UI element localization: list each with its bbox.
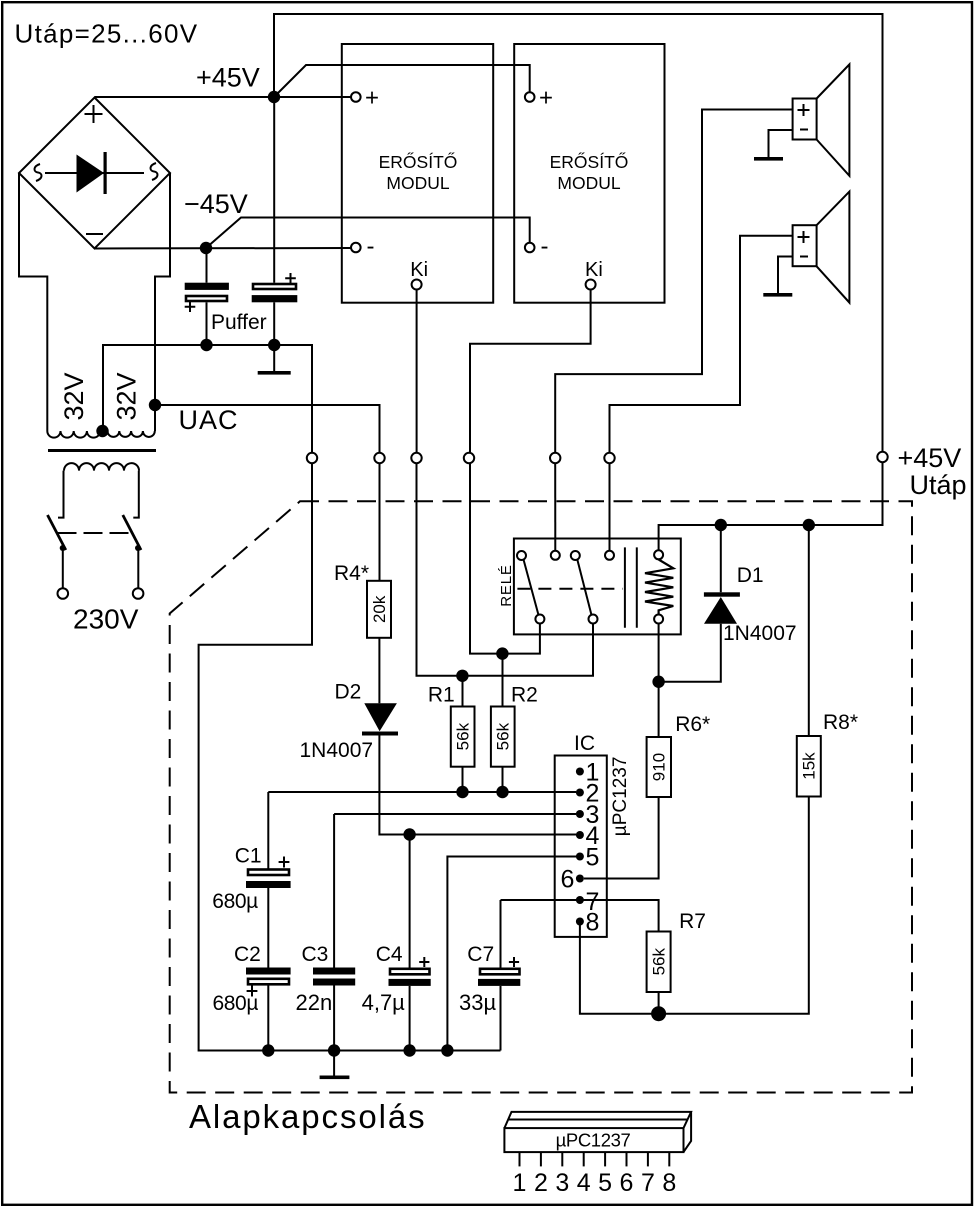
- terminal module2 plus: [525, 92, 535, 102]
- connector circle Ki1: [411, 453, 421, 463]
- svg-text:MODUL: MODUL: [386, 173, 449, 193]
- svg-text:R6*: R6*: [675, 713, 710, 736]
- diode D2 cathode bar: [362, 732, 398, 736]
- svg-text:R7: R7: [679, 910, 706, 933]
- capacitor C1 plus: [279, 857, 290, 868]
- switch pole left lever: [48, 515, 66, 550]
- svg-text:R1: R1: [428, 684, 455, 707]
- bridge right tilde: [150, 163, 157, 180]
- node +45V junction: [268, 91, 280, 103]
- wire puffer-gnd into box: [199, 463, 501, 1051]
- capacitor C4 lead top: [409, 835, 411, 968]
- relay contact top 1: [517, 551, 526, 560]
- node bottom rail junction: [651, 1006, 666, 1021]
- package top bevel line: [508, 1119, 688, 1121]
- svg-text:8: 8: [662, 1169, 676, 1197]
- diode D1 cathode bar: [704, 592, 740, 596]
- svg-text:C2: C2: [234, 943, 261, 966]
- capacitor puffer C-right lead bottom: [273, 302, 275, 345]
- node C2 ground: [262, 1044, 274, 1056]
- capacitor C3 bottom plate: [313, 979, 355, 986]
- speaker 2 box: [793, 225, 817, 266]
- wire R7 bottom: [658, 992, 660, 1014]
- capacitor C7 top plate hollow: [480, 969, 520, 975]
- node switch left pivot: [60, 545, 66, 551]
- resistor R4 box: [367, 581, 391, 638]
- bridge internal AC line: [45, 172, 144, 174]
- bridge rectifier B1 diamond: [19, 98, 170, 249]
- IC pin 7 dot: [576, 896, 584, 904]
- wire Ki2 into box to relay and R2: [470, 463, 540, 654]
- capacitor puffer C-left plus: [185, 302, 196, 313]
- svg-text:µPC1237: µPC1237: [610, 757, 631, 837]
- relay core bar right: [636, 547, 638, 627]
- capacitor C7 lead bottom: [500, 986, 502, 1051]
- node R2 bottom junction: [496, 786, 508, 798]
- svg-text:6: 6: [561, 866, 575, 894]
- relay coil zigzag: [645, 560, 673, 615]
- node C3 ground: [328, 1044, 340, 1056]
- svg-text:-: -: [541, 233, 549, 260]
- bridge plus sign: [85, 105, 103, 123]
- node R2 top junction: [496, 647, 508, 659]
- capacitor C1 lead top from pin2 line: [267, 792, 269, 869]
- capacitor puffer C-right lead top: [273, 97, 275, 283]
- resistor R2 box: [491, 707, 515, 767]
- svg-text:910: 910: [650, 753, 669, 781]
- package pin 8: [668, 1152, 670, 1166]
- connector circle speaker2: [604, 453, 614, 463]
- wire D2 to pin4 line: [379, 736, 576, 835]
- wire Ki1 riser: [416, 290, 418, 454]
- svg-text:Utáp: Utáp: [910, 470, 967, 500]
- wire pin7 line from C7 to R7: [501, 900, 659, 932]
- node R8 top junction: [803, 519, 815, 531]
- diode D2 triangle: [364, 703, 397, 731]
- svg-text:32V: 32V: [59, 372, 89, 420]
- svg-text:56k: 56k: [494, 722, 513, 750]
- speaker 2 cone: [817, 192, 850, 303]
- relay lever 1: [524, 560, 539, 616]
- IC pin 5 dot: [576, 853, 584, 861]
- wire bridge left corner to transformer secondary left: [19, 173, 47, 431]
- package pin 4: [583, 1152, 585, 1166]
- svg-text:R4*: R4*: [334, 562, 369, 585]
- ground stub below rail: [333, 1051, 335, 1077]
- wire UAC to connector: [155, 405, 380, 453]
- package top face: [504, 1112, 691, 1152]
- svg-text:+: +: [539, 85, 553, 112]
- wire R2 bottom: [502, 767, 504, 792]
- capacitor puffer C-right top plate: [253, 284, 296, 289]
- package pin 2: [540, 1152, 542, 1166]
- capacitor puffer C-left top plate: [185, 283, 229, 290]
- package pin 5: [604, 1152, 606, 1166]
- node puffer left junction: [200, 339, 212, 351]
- svg-text:20k: 20k: [370, 595, 389, 623]
- wire switch left to terminal: [62, 549, 64, 589]
- svg-text:15k: 15k: [800, 752, 819, 780]
- relay coil terminal top: [654, 550, 663, 559]
- svg-text:5: 5: [586, 844, 600, 872]
- svg-text:C1: C1: [235, 844, 262, 867]
- wire -45V rail from bridge bottom to module1 minus: [95, 247, 352, 250]
- svg-text:56k: 56k: [650, 948, 669, 976]
- capacitor C4 lead bottom: [409, 986, 411, 1051]
- package pin 1: [519, 1152, 521, 1166]
- wire +45V branch to module2 plus: [274, 65, 530, 97]
- node puffer right junction: [268, 339, 280, 351]
- speaker 2 minus: [800, 256, 808, 258]
- connector circle Ki2: [464, 453, 474, 463]
- capacitor puffer C-right bottom plate: [252, 295, 298, 302]
- package pin 6: [626, 1152, 628, 1166]
- capacitor puffer C-left lead bottom: [206, 302, 208, 345]
- package pin 3: [561, 1152, 563, 1166]
- capacitor puffer C-left lead top: [206, 248, 208, 283]
- terminal Ki module2: [586, 280, 596, 290]
- wire UAC connector to R4: [379, 463, 381, 581]
- resistor R6 box: [647, 737, 671, 797]
- connector circle puffer-gnd: [307, 453, 317, 463]
- capacitor C3 lead top: [333, 814, 335, 968]
- wire pin3 line from C3: [334, 813, 576, 815]
- IC pin 4 dot: [576, 831, 584, 839]
- capacitor C2 top plate solid: [246, 968, 291, 975]
- wire +45V rail from bridge top to module1 plus: [95, 96, 352, 98]
- IC pin 1 dot: [576, 768, 584, 776]
- relay contact top 4: [605, 551, 614, 560]
- svg-text:IC: IC: [574, 732, 595, 755]
- diode D1 triangle: [704, 597, 737, 624]
- amplifier module 2 box: [514, 44, 664, 303]
- diode D1 lead bottom: [659, 624, 721, 682]
- wire pin8 to bottom rail: [580, 922, 659, 1014]
- node C4 ground: [403, 1044, 415, 1056]
- svg-text:ERŐSÍTŐ: ERŐSÍTŐ: [550, 151, 629, 172]
- transformer core bar: [48, 449, 156, 452]
- svg-text:1N4007: 1N4007: [300, 739, 374, 762]
- wire +45V riser up and across top to right side: [274, 14, 883, 452]
- transformer primary winding 230V: [64, 463, 139, 470]
- IC pin 6 dot: [576, 875, 584, 883]
- terminal 230V left: [58, 588, 69, 599]
- wire primary right to switch: [133, 471, 139, 518]
- capacitor C3 top plate: [313, 968, 355, 975]
- node C4 junction on pin4 line: [403, 828, 415, 840]
- node -45V junction: [200, 242, 212, 254]
- wire R8 top riser: [808, 525, 810, 736]
- wire speaker2 minus to ground: [778, 257, 793, 294]
- capacitor puffer C-right plus: [285, 273, 296, 284]
- capacitor C2 bottom plate hollow: [248, 979, 289, 985]
- svg-text:22n: 22n: [296, 990, 333, 1015]
- speaker 1 plus: [798, 104, 810, 116]
- terminal 230V right: [133, 588, 144, 599]
- speaker 1 cone: [817, 64, 850, 175]
- svg-text:Puffer: Puffer: [211, 311, 267, 334]
- speaker 1 box: [793, 99, 817, 140]
- svg-text:1N4007: 1N4007: [723, 622, 797, 645]
- terminal module2 minus: [525, 243, 535, 253]
- wire primary left to switch: [58, 471, 64, 518]
- svg-text:3: 3: [555, 1169, 569, 1197]
- relay box: [514, 539, 681, 635]
- svg-text:+45V: +45V: [898, 443, 962, 473]
- svg-text:+45V: +45V: [196, 63, 260, 93]
- svg-text:230V: 230V: [73, 604, 139, 635]
- capacitor C3 lead bottom: [333, 986, 335, 1051]
- connector circle +45V Utap: [877, 452, 887, 462]
- relay contact top 3: [571, 551, 580, 560]
- svg-text:680µ: 680µ: [213, 992, 259, 1015]
- svg-text:D2: D2: [335, 681, 362, 704]
- wire +45V Utap into box: [659, 462, 883, 550]
- IC pin 3 dot: [576, 810, 584, 818]
- svg-text:C3: C3: [302, 943, 329, 966]
- ground stub at puffer: [273, 345, 275, 371]
- relay mechanical link dashed: [517, 588, 622, 590]
- bridge left tilde: [34, 164, 41, 181]
- capacitor C4 bottom plate solid: [389, 979, 431, 986]
- svg-text:UAC: UAC: [179, 405, 239, 435]
- ground bar at puffer: [258, 371, 291, 375]
- capacitor puffer C-left bottom plate: [186, 296, 227, 301]
- wire pin5 line to ground: [447, 857, 576, 1051]
- terminal module1 minus: [351, 243, 361, 253]
- svg-text:C7: C7: [467, 943, 494, 966]
- svg-text:Ki: Ki: [585, 259, 603, 281]
- svg-text:1: 1: [513, 1169, 527, 1197]
- wire Ki2 riser: [470, 290, 591, 454]
- bridge minus sign: [86, 233, 103, 235]
- node D1 top: [715, 519, 727, 531]
- wire R8 bottom to rail: [659, 797, 809, 1014]
- wire R2 top: [502, 654, 504, 707]
- wire speaker1 plus lead: [555, 110, 792, 454]
- amplifier module 1 box: [342, 44, 493, 303]
- node UAC junction: [149, 399, 161, 411]
- svg-text:RELÉ: RELÉ: [498, 564, 515, 606]
- wire relay output2 riser: [609, 463, 611, 551]
- svg-text:MODUL: MODUL: [557, 173, 620, 193]
- ground bar main: [320, 1076, 350, 1080]
- relay contact bottom 1: [535, 615, 544, 624]
- speaker 1 minus: [800, 129, 808, 131]
- svg-text:R8*: R8*: [823, 711, 858, 734]
- connector circle speaker1: [550, 453, 560, 463]
- capacitor C7 bottom plate solid: [478, 979, 520, 986]
- wire speaker2 plus lead: [610, 236, 793, 453]
- wire R4 to D2: [378, 638, 380, 704]
- transformer secondary winding left 32V: [47, 431, 100, 438]
- capacitor C1 top plate hollow: [248, 870, 289, 876]
- relay contact bottom 2: [589, 615, 598, 624]
- wire relay output1 riser: [554, 463, 556, 551]
- speaker 2 plus: [798, 231, 810, 243]
- svg-text:6: 6: [620, 1169, 634, 1197]
- svg-text:−45V: −45V: [184, 189, 248, 219]
- switch mechanical link dashed: [58, 532, 131, 534]
- relay contact top 2: [551, 551, 560, 560]
- svg-text:4: 4: [577, 1169, 591, 1197]
- node R1 bottom junction: [456, 786, 468, 798]
- bridge internal diode: [77, 155, 105, 193]
- relay lever 2: [577, 560, 591, 616]
- capacitor C1 bottom plate solid: [246, 881, 291, 888]
- package uPC1237 front face: [504, 1128, 683, 1152]
- connector circle UAC: [374, 453, 384, 463]
- svg-text:33µ: 33µ: [459, 990, 496, 1015]
- node R6 top junction: [652, 676, 664, 688]
- diode D1 lead top: [720, 525, 722, 592]
- svg-text:32V: 32V: [111, 372, 141, 420]
- wire bridge right corner to transformer secondary right: [155, 173, 170, 431]
- wire R6 bottom to pin6: [584, 797, 659, 879]
- capacitor C7 plus: [509, 957, 519, 967]
- wire center tap riser: [102, 345, 104, 430]
- capacitor C4 top plate hollow: [390, 969, 430, 975]
- resistor R8 box: [797, 736, 821, 797]
- node center tap: [96, 425, 108, 437]
- svg-text:Alapkapcsolás: Alapkapcsolás: [189, 1098, 427, 1135]
- wire puffer ground rail: [103, 345, 312, 453]
- wire speaker1 minus to ground: [769, 130, 793, 157]
- wire -45V branch to module2 minus: [206, 218, 530, 249]
- svg-text:4,7µ: 4,7µ: [362, 990, 406, 1015]
- svg-text:µPC1237: µPC1237: [556, 1130, 631, 1151]
- svg-text:Ki: Ki: [410, 259, 428, 281]
- svg-text:56k: 56k: [454, 722, 473, 750]
- svg-text:Utáp=25...60V: Utáp=25...60V: [15, 19, 199, 49]
- node R1 top junction: [456, 670, 468, 682]
- wire R1 top: [462, 676, 464, 707]
- wire Ki1 into box to relay and R1: [417, 463, 594, 676]
- svg-text:7: 7: [641, 1169, 655, 1197]
- ground bar speaker1: [754, 157, 783, 161]
- IC pin 8 dot: [576, 918, 584, 926]
- capacitor C2 lead bottom: [267, 984, 269, 1050]
- svg-text:680µ: 680µ: [212, 890, 258, 913]
- wire R1 bottom: [462, 767, 464, 792]
- svg-text:+: +: [365, 85, 379, 112]
- node switch right pivot: [135, 545, 141, 551]
- svg-text:R2: R2: [511, 684, 538, 707]
- svg-text:C4: C4: [376, 943, 403, 966]
- dashed boundary Alapkapcsolas box: [170, 501, 912, 1092]
- ground bar speaker2: [763, 293, 792, 297]
- capacitor C7 lead top: [500, 900, 502, 968]
- capacitor C2 plus: [247, 986, 258, 997]
- transformer secondary winding right 32V: [108, 431, 155, 437]
- svg-text:2: 2: [534, 1169, 548, 1197]
- terminal Ki module1: [412, 280, 422, 290]
- resistor R7 box: [647, 932, 671, 993]
- svg-text:8: 8: [586, 909, 600, 937]
- IC box: [555, 756, 607, 937]
- terminal module1 plus: [351, 92, 361, 102]
- svg-text:5: 5: [598, 1169, 612, 1197]
- node pin5 ground: [441, 1044, 453, 1056]
- package pin 7: [647, 1152, 649, 1166]
- IC pin 2 dot: [576, 789, 584, 797]
- capacitor C4 plus: [419, 957, 429, 967]
- wire relay coil bottom to R6: [658, 624, 660, 738]
- switch pole right lever: [123, 515, 141, 550]
- relay coil terminal bottom: [654, 615, 663, 624]
- capacitor C1 to C2 lead: [267, 888, 269, 968]
- svg-text:-: -: [367, 233, 375, 260]
- svg-text:D1: D1: [737, 564, 764, 587]
- wire pin2 line: [268, 791, 576, 793]
- svg-text:ERŐSÍTŐ: ERŐSÍTŐ: [379, 151, 458, 172]
- resistor R1 box: [451, 707, 475, 767]
- relay core bar left: [624, 547, 626, 627]
- bridge internal diode cathode bar: [104, 152, 107, 194]
- wire switch right to terminal: [137, 549, 139, 589]
